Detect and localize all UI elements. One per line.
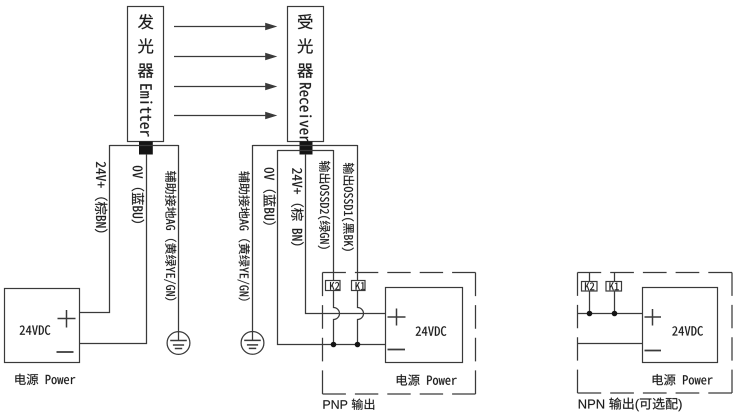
wire 24V+ emitter <box>80 145 110 313</box>
NPN dashed enclosure <box>578 273 733 394</box>
light beam arrow 1 <box>174 23 277 30</box>
caption PNP 输出 <box>323 400 347 409</box>
relay K1 (PNP) <box>352 281 366 291</box>
wire AG emitter <box>178 145 180 341</box>
junction dot OSSD2/0V <box>331 342 337 348</box>
PNP dashed enclosure <box>323 273 476 395</box>
label 辅助接地AG receiver <box>238 171 250 300</box>
wire K2 stub (NPN) <box>589 273 591 314</box>
label 输出OSSD1(黑BK) <box>342 163 354 251</box>
minus terminal PNP <box>388 349 406 351</box>
text K2 (PNP) <box>330 282 339 290</box>
plus terminal left <box>58 310 76 328</box>
wire OSSD1 with hop <box>358 145 364 345</box>
text K1 (NPN) <box>609 282 618 290</box>
plus terminal NPN <box>645 309 662 326</box>
receiver breakout bus inner <box>278 150 334 152</box>
relay K1 (NPN) <box>606 282 622 292</box>
label 24V+（棕BN） emitter <box>95 162 108 233</box>
text 电源 Power NPN <box>653 374 713 385</box>
emitter box <box>128 7 164 142</box>
wire 0V emitter <box>80 154 147 344</box>
caption NPN 输出(可选配) <box>579 400 604 409</box>
junction dot OSSD1/0V <box>355 342 361 348</box>
wire 0V receiver <box>278 150 386 345</box>
wire AG receiver <box>252 145 254 341</box>
wire K1 stub (NPN) <box>614 273 616 314</box>
text 电源 Power PNP <box>397 374 457 385</box>
text K2 (NPN) <box>585 282 594 290</box>
minus terminal left <box>57 351 74 353</box>
junction dot K2 (NPN) <box>587 311 593 317</box>
receiver connector (black) <box>300 142 313 155</box>
text 24VDC PNP <box>416 326 447 336</box>
label 输出OSSD2(绿GN) <box>318 161 330 249</box>
label 24V+（棕BN） receiver <box>291 168 304 245</box>
wire OSSD2 with hop <box>334 150 340 345</box>
minus terminal NPN <box>645 350 662 352</box>
protective earth symbol (emitter AG) <box>167 332 190 355</box>
protective earth symbol (receiver AG) <box>241 332 264 355</box>
plus terminal PNP <box>388 309 406 326</box>
receiver box <box>288 7 324 142</box>
light beam arrow 4 <box>174 112 277 119</box>
text 24VDC left <box>20 325 51 335</box>
NPN plus bus <box>578 313 643 315</box>
NPN minus bus <box>578 343 643 345</box>
text 电源 Power left <box>15 374 75 385</box>
emitter label 发光器 Emitter <box>138 14 153 137</box>
label 辅助接地AG emitter <box>164 171 176 300</box>
label 0V（蓝BU） emitter <box>132 166 145 223</box>
light beam arrow 3 <box>174 83 277 90</box>
label 0V（蓝BU） receiver <box>263 168 276 225</box>
receiver label 受光器 Receiver <box>297 14 312 142</box>
text K1 (PNP) <box>356 282 365 290</box>
receiver breakout bus outer <box>253 145 358 147</box>
power supply box NPN (24VDC) <box>643 288 718 363</box>
power supply box left (24VDC) <box>5 289 80 363</box>
text 24VDC NPN <box>672 326 703 336</box>
power supply box PNP (24VDC) <box>386 288 463 363</box>
relay K2 (PNP) <box>326 281 341 291</box>
relay K2 (NPN) <box>582 282 598 292</box>
emitter connector (black) <box>139 142 153 155</box>
light beam arrow 2 <box>174 53 277 60</box>
emitter breakout bus <box>110 145 179 147</box>
junction dot K1 (NPN) <box>612 311 618 317</box>
wire 24V+ receiver <box>306 154 386 314</box>
